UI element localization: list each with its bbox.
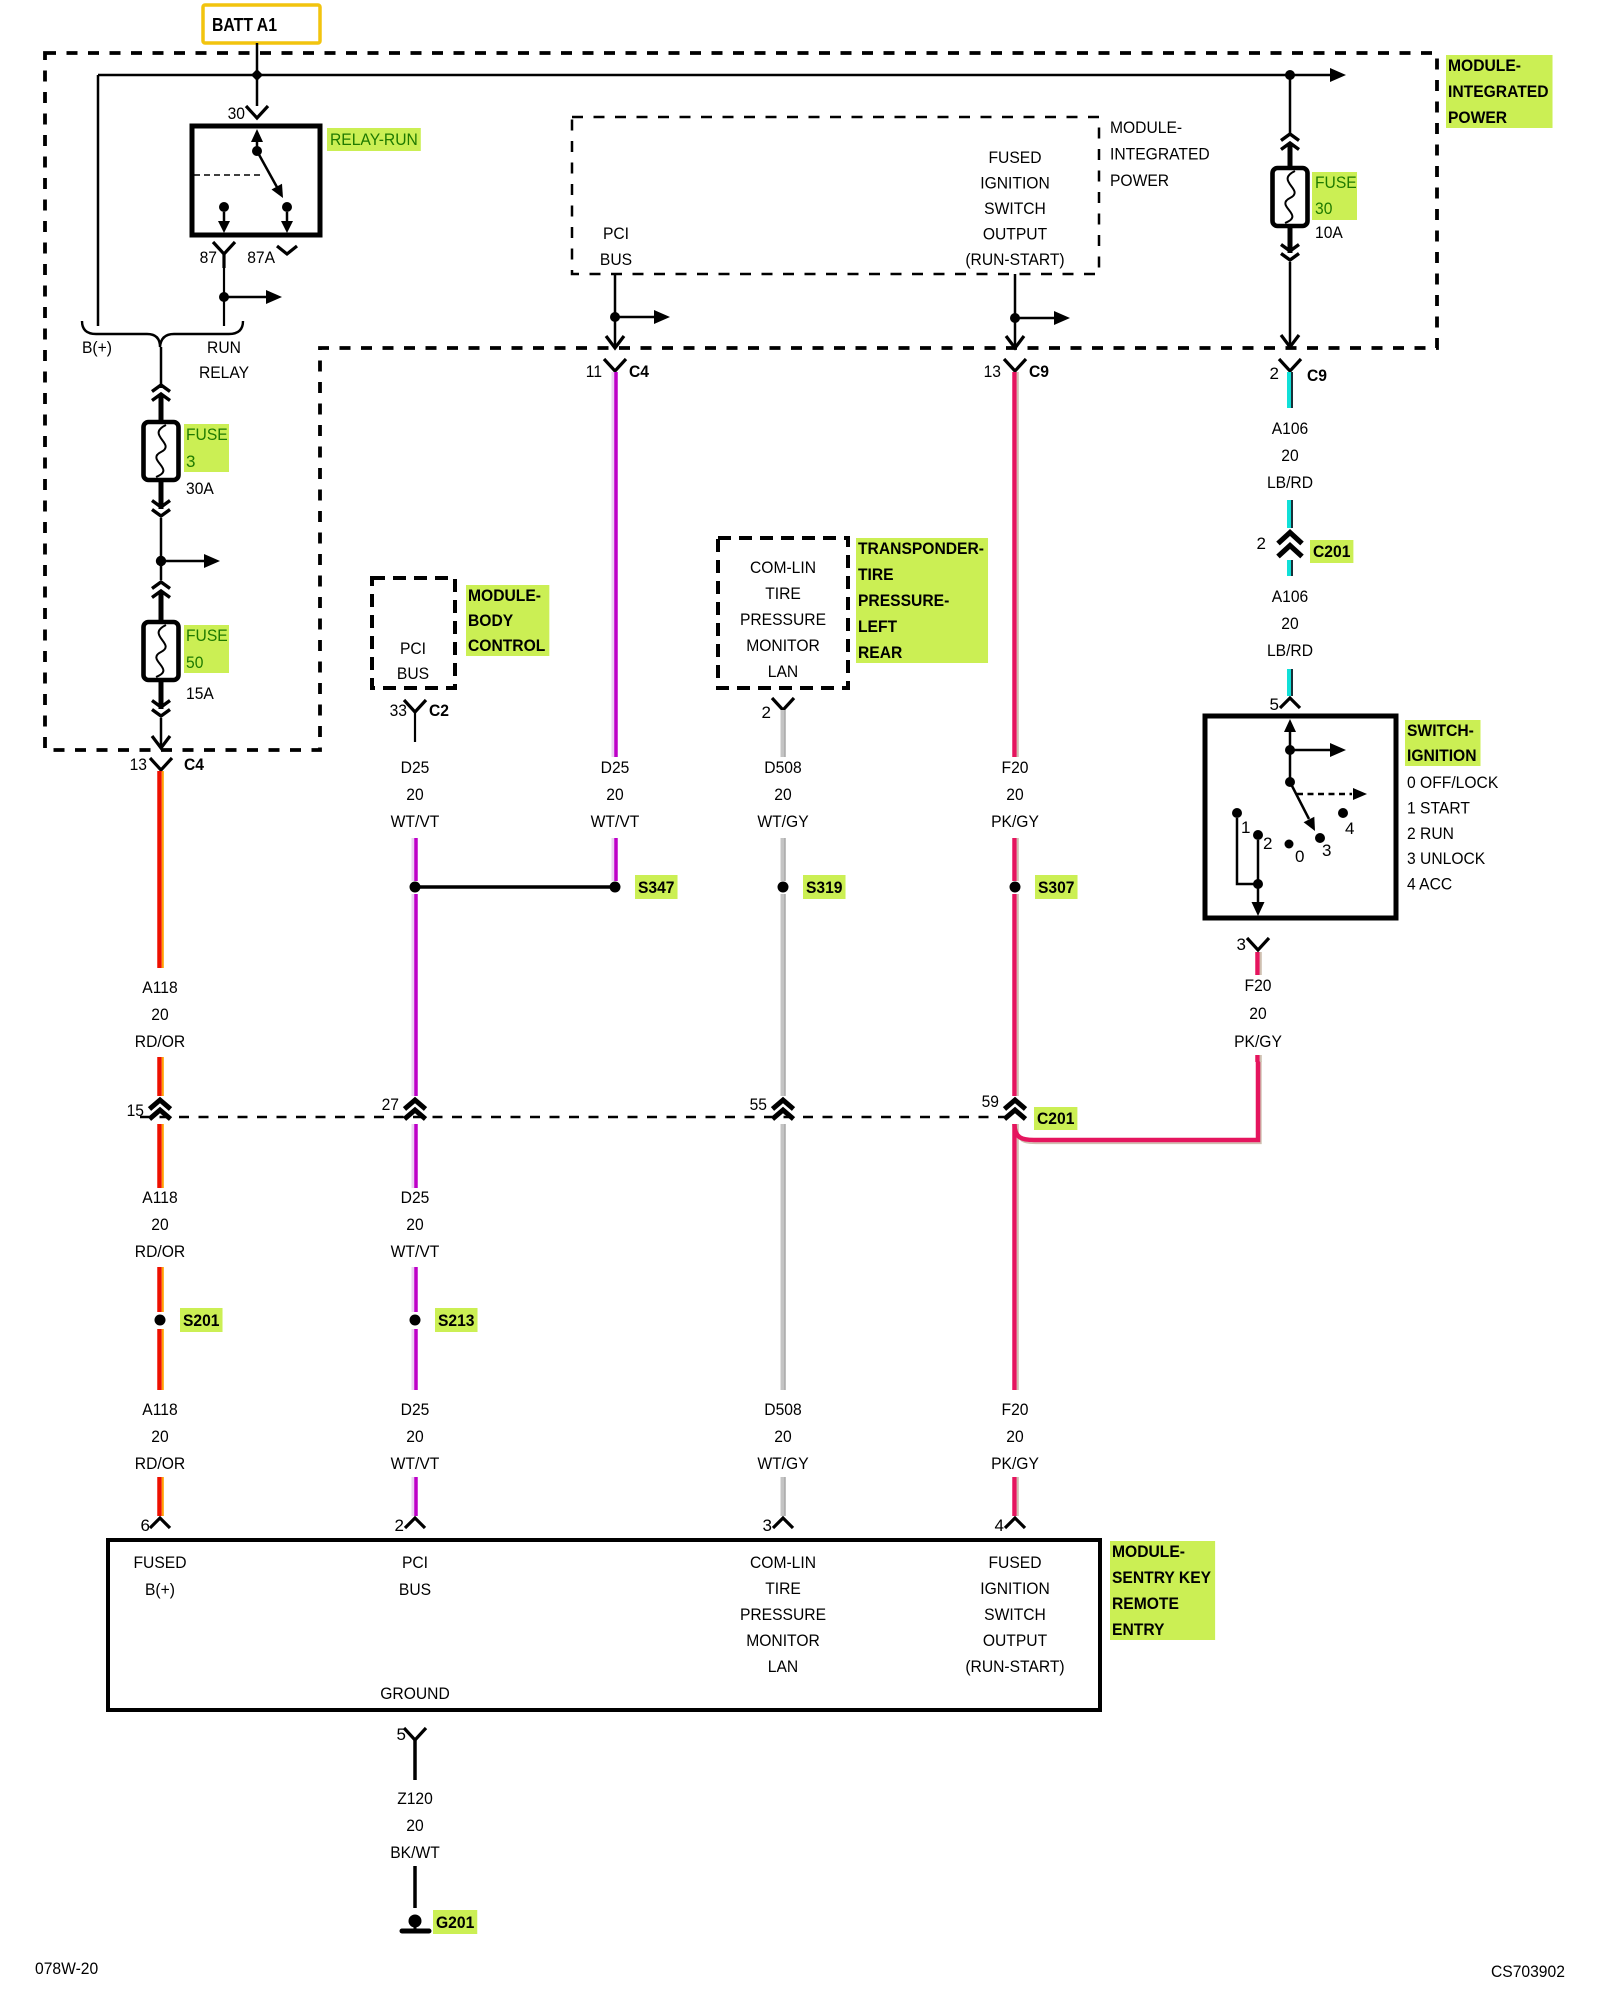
- svg-text:D25: D25: [401, 1400, 430, 1419]
- svg-text:IGNITION: IGNITION: [980, 1579, 1050, 1598]
- svg-text:PCI: PCI: [400, 639, 426, 658]
- svg-text:20: 20: [1006, 1427, 1023, 1446]
- svg-text:D508: D508: [764, 1400, 801, 1419]
- svg-text:4: 4: [1345, 819, 1354, 838]
- svg-text:27: 27: [382, 1095, 399, 1114]
- svg-text:FUSED: FUSED: [989, 1553, 1042, 1572]
- svg-text:55: 55: [750, 1095, 767, 1114]
- svg-text:20: 20: [151, 1215, 168, 1234]
- svg-text:59: 59: [982, 1092, 999, 1111]
- svg-text:BK/WT: BK/WT: [390, 1843, 440, 1862]
- svg-text:OUTPUT: OUTPUT: [983, 225, 1047, 244]
- svg-text:10A: 10A: [1315, 223, 1343, 242]
- svg-text:5: 5: [397, 1725, 406, 1744]
- svg-text:MODULE-: MODULE-: [1112, 1542, 1185, 1561]
- svg-text:2: 2: [395, 1516, 404, 1535]
- svg-text:3: 3: [1322, 841, 1331, 860]
- svg-text:WT/VT: WT/VT: [391, 1242, 440, 1261]
- svg-text:SWITCH-: SWITCH-: [1407, 721, 1474, 740]
- svg-text:F20: F20: [1002, 1400, 1029, 1419]
- svg-text:B(+): B(+): [145, 1580, 175, 1599]
- svg-text:LAN: LAN: [768, 1657, 798, 1676]
- svg-text:0: 0: [1295, 847, 1304, 866]
- svg-text:20: 20: [1006, 785, 1023, 804]
- svg-text:(RUN-START): (RUN-START): [965, 1657, 1064, 1676]
- svg-text:RD/OR: RD/OR: [135, 1032, 185, 1051]
- svg-text:D25: D25: [401, 758, 430, 777]
- svg-text:PK/GY: PK/GY: [991, 1454, 1039, 1473]
- svg-text:3 UNLOCK: 3 UNLOCK: [1407, 849, 1486, 868]
- svg-text:WT/VT: WT/VT: [391, 1454, 440, 1473]
- svg-text:20: 20: [151, 1005, 168, 1024]
- svg-text:BUS: BUS: [600, 250, 632, 269]
- svg-text:INTEGRATED: INTEGRATED: [1448, 82, 1549, 101]
- svg-text:LAN: LAN: [768, 662, 798, 681]
- svg-text:F20: F20: [1002, 758, 1029, 777]
- svg-text:INTEGRATED: INTEGRATED: [1110, 145, 1210, 164]
- svg-text:A118: A118: [142, 978, 177, 997]
- svg-text:PRESSURE: PRESSURE: [740, 610, 826, 629]
- svg-text:33: 33: [390, 701, 407, 720]
- svg-text:C201: C201: [1037, 1109, 1074, 1128]
- svg-text:20: 20: [1281, 614, 1298, 633]
- svg-text:MODULE-: MODULE-: [1448, 56, 1521, 75]
- svg-text:WT/VT: WT/VT: [391, 812, 440, 831]
- svg-text:87: 87: [200, 248, 217, 267]
- svg-text:FUSE: FUSE: [186, 425, 228, 444]
- svg-text:20: 20: [774, 785, 791, 804]
- svg-text:CONTROL: CONTROL: [468, 636, 545, 655]
- svg-text:MODULE-: MODULE-: [468, 586, 541, 605]
- svg-text:S307: S307: [1038, 878, 1075, 897]
- svg-text:BUS: BUS: [399, 1580, 431, 1599]
- svg-text:50: 50: [186, 653, 203, 672]
- svg-text:FUSED: FUSED: [989, 148, 1042, 167]
- svg-text:15: 15: [127, 1101, 144, 1120]
- svg-text:C201: C201: [1313, 542, 1350, 561]
- svg-text:F20: F20: [1245, 976, 1272, 995]
- svg-text:2: 2: [1263, 834, 1272, 853]
- svg-text:ENTRY: ENTRY: [1112, 1620, 1165, 1639]
- svg-text:LEFT: LEFT: [858, 617, 898, 636]
- svg-text:BUS: BUS: [397, 664, 429, 683]
- svg-text:A106: A106: [1272, 587, 1309, 606]
- svg-text:BATT A1: BATT A1: [212, 15, 277, 35]
- svg-text:TRANSPONDER-: TRANSPONDER-: [858, 539, 984, 558]
- svg-text:RELAY: RELAY: [199, 363, 249, 382]
- svg-text:2 RUN: 2 RUN: [1407, 824, 1454, 843]
- svg-text:2: 2: [762, 703, 771, 722]
- svg-text:A106: A106: [1272, 419, 1309, 438]
- svg-text:1: 1: [1241, 818, 1250, 837]
- svg-text:0 OFF/LOCK: 0 OFF/LOCK: [1407, 773, 1499, 792]
- svg-text:A118: A118: [142, 1188, 177, 1207]
- svg-text:13: 13: [984, 362, 1001, 381]
- svg-text:POWER: POWER: [1448, 108, 1507, 127]
- svg-text:1 START: 1 START: [1407, 798, 1470, 817]
- svg-text:30A: 30A: [186, 479, 214, 498]
- svg-text:4: 4: [995, 1516, 1004, 1535]
- svg-text:D25: D25: [601, 758, 630, 777]
- svg-text:20: 20: [1281, 446, 1298, 465]
- svg-text:PRESSURE: PRESSURE: [740, 1605, 826, 1624]
- svg-text:20: 20: [406, 1816, 423, 1835]
- svg-text:078W-20: 078W-20: [35, 1959, 98, 1978]
- svg-text:COM-LIN: COM-LIN: [750, 1553, 816, 1572]
- svg-text:COM-LIN: COM-LIN: [750, 558, 816, 577]
- svg-text:WT/GY: WT/GY: [757, 812, 808, 831]
- svg-text:C9: C9: [1029, 362, 1049, 381]
- svg-text:87A: 87A: [247, 248, 275, 267]
- svg-text:20: 20: [406, 785, 423, 804]
- svg-text:SWITCH: SWITCH: [984, 1605, 1046, 1624]
- svg-text:TIRE: TIRE: [858, 565, 894, 584]
- svg-text:6: 6: [141, 1516, 150, 1535]
- svg-text:S213: S213: [438, 1311, 475, 1330]
- svg-text:B(+): B(+): [82, 338, 112, 357]
- svg-text:FUSE: FUSE: [1315, 173, 1357, 192]
- svg-text:A118: A118: [142, 1400, 177, 1419]
- svg-text:S347: S347: [638, 878, 675, 897]
- svg-text:TIRE: TIRE: [765, 1579, 801, 1598]
- svg-text:S201: S201: [183, 1311, 220, 1330]
- svg-text:SWITCH: SWITCH: [984, 199, 1046, 218]
- svg-text:C4: C4: [629, 362, 649, 381]
- svg-text:IGNITION: IGNITION: [1407, 746, 1477, 765]
- svg-text:WT/GY: WT/GY: [757, 1454, 808, 1473]
- svg-text:13: 13: [130, 755, 147, 774]
- svg-text:SENTRY KEY: SENTRY KEY: [1112, 1568, 1212, 1587]
- svg-text:REMOTE: REMOTE: [1112, 1594, 1179, 1613]
- svg-text:20: 20: [151, 1427, 168, 1446]
- svg-text:20: 20: [406, 1427, 423, 1446]
- svg-text:C2: C2: [429, 701, 449, 720]
- svg-text:3: 3: [186, 452, 195, 471]
- svg-text:20: 20: [774, 1427, 791, 1446]
- svg-text:BODY: BODY: [468, 611, 514, 630]
- svg-text:FUSED: FUSED: [134, 1553, 187, 1572]
- svg-text:LB/RD: LB/RD: [1267, 641, 1313, 660]
- svg-text:PK/GY: PK/GY: [991, 812, 1039, 831]
- svg-text:2: 2: [1257, 534, 1266, 553]
- svg-text:C9: C9: [1307, 366, 1327, 385]
- svg-text:5: 5: [1270, 695, 1279, 714]
- svg-text:30: 30: [1315, 199, 1332, 218]
- svg-text:CS703902: CS703902: [1491, 1962, 1565, 1981]
- svg-text:RD/OR: RD/OR: [135, 1242, 185, 1261]
- svg-text:WT/VT: WT/VT: [591, 812, 640, 831]
- svg-text:4 ACC: 4 ACC: [1407, 875, 1452, 894]
- svg-text:PCI: PCI: [603, 224, 629, 243]
- svg-text:MODULE-: MODULE-: [1110, 118, 1182, 137]
- svg-text:POWER: POWER: [1110, 171, 1169, 190]
- svg-text:MONITOR: MONITOR: [746, 1631, 820, 1650]
- svg-text:RUN: RUN: [207, 338, 241, 357]
- svg-text:C4: C4: [184, 755, 204, 774]
- svg-text:3: 3: [1237, 935, 1246, 954]
- svg-text:FUSE: FUSE: [186, 626, 228, 645]
- svg-text:20: 20: [1249, 1004, 1266, 1023]
- svg-text:11: 11: [586, 362, 602, 381]
- svg-text:3: 3: [763, 1516, 772, 1535]
- svg-text:RELAY-RUN: RELAY-RUN: [330, 130, 418, 149]
- svg-text:D25: D25: [401, 1188, 430, 1207]
- svg-text:RD/OR: RD/OR: [135, 1454, 185, 1473]
- svg-text:2: 2: [1270, 364, 1279, 383]
- svg-text:20: 20: [606, 785, 623, 804]
- svg-text:GROUND: GROUND: [380, 1684, 450, 1703]
- svg-text:20: 20: [406, 1215, 423, 1234]
- svg-text:LB/RD: LB/RD: [1267, 473, 1313, 492]
- svg-text:TIRE: TIRE: [765, 584, 801, 603]
- svg-text:MONITOR: MONITOR: [746, 636, 820, 655]
- svg-text:PRESSURE-: PRESSURE-: [858, 591, 949, 610]
- svg-text:15A: 15A: [186, 684, 214, 703]
- svg-text:30: 30: [228, 104, 245, 123]
- svg-text:Z120: Z120: [397, 1789, 433, 1808]
- svg-text:PCI: PCI: [402, 1553, 428, 1572]
- svg-text:D508: D508: [764, 758, 801, 777]
- svg-text:IGNITION: IGNITION: [980, 174, 1050, 193]
- svg-text:PK/GY: PK/GY: [1234, 1032, 1282, 1051]
- svg-text:G201: G201: [436, 1913, 474, 1932]
- svg-text:(RUN-START): (RUN-START): [965, 250, 1064, 269]
- svg-text:REAR: REAR: [858, 643, 902, 662]
- svg-text:OUTPUT: OUTPUT: [983, 1631, 1047, 1650]
- svg-text:S319: S319: [806, 878, 843, 897]
